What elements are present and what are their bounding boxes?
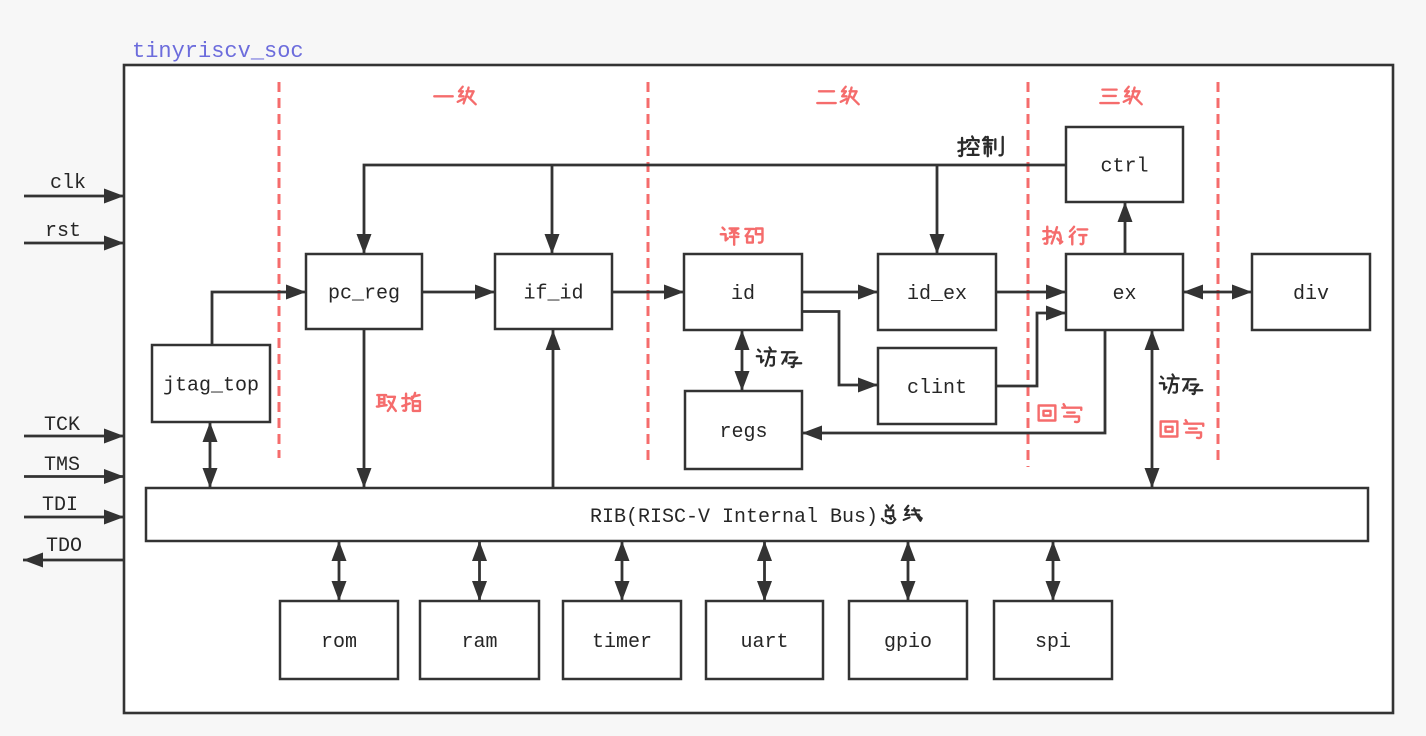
svg-text:regs: regs [719, 421, 767, 444]
svg-text:TDI: TDI [42, 494, 78, 517]
svg-text:gpio: gpio [884, 631, 932, 654]
svg-text:div: div [1293, 283, 1329, 306]
svg-text:TMS: TMS [44, 454, 80, 477]
svg-text:clk: clk [50, 172, 86, 195]
svg-text:jtag_top: jtag_top [163, 375, 259, 398]
svg-text:TCK: TCK [44, 414, 80, 437]
svg-text:pc_reg: pc_reg [328, 283, 400, 306]
svg-text:clint: clint [907, 377, 967, 400]
svg-text:timer: timer [592, 631, 652, 654]
svg-text:id_ex: id_ex [907, 283, 967, 306]
svg-text:rom: rom [321, 631, 357, 654]
svg-text:ctrl: ctrl [1100, 156, 1148, 179]
svg-text:if_id: if_id [523, 283, 583, 306]
svg-text:spi: spi [1035, 631, 1071, 654]
svg-text:uart: uart [740, 631, 788, 654]
svg-text:ram: ram [461, 631, 497, 654]
svg-text:id: id [731, 283, 755, 306]
svg-text:TDO: TDO [46, 535, 82, 558]
svg-text:RIB(RISC-V Internal Bus): RIB(RISC-V Internal Bus) [590, 506, 878, 529]
svg-text:ex: ex [1112, 283, 1136, 306]
svg-text:tinyriscv_soc: tinyriscv_soc [132, 39, 304, 64]
svg-text:rst: rst [45, 220, 81, 243]
